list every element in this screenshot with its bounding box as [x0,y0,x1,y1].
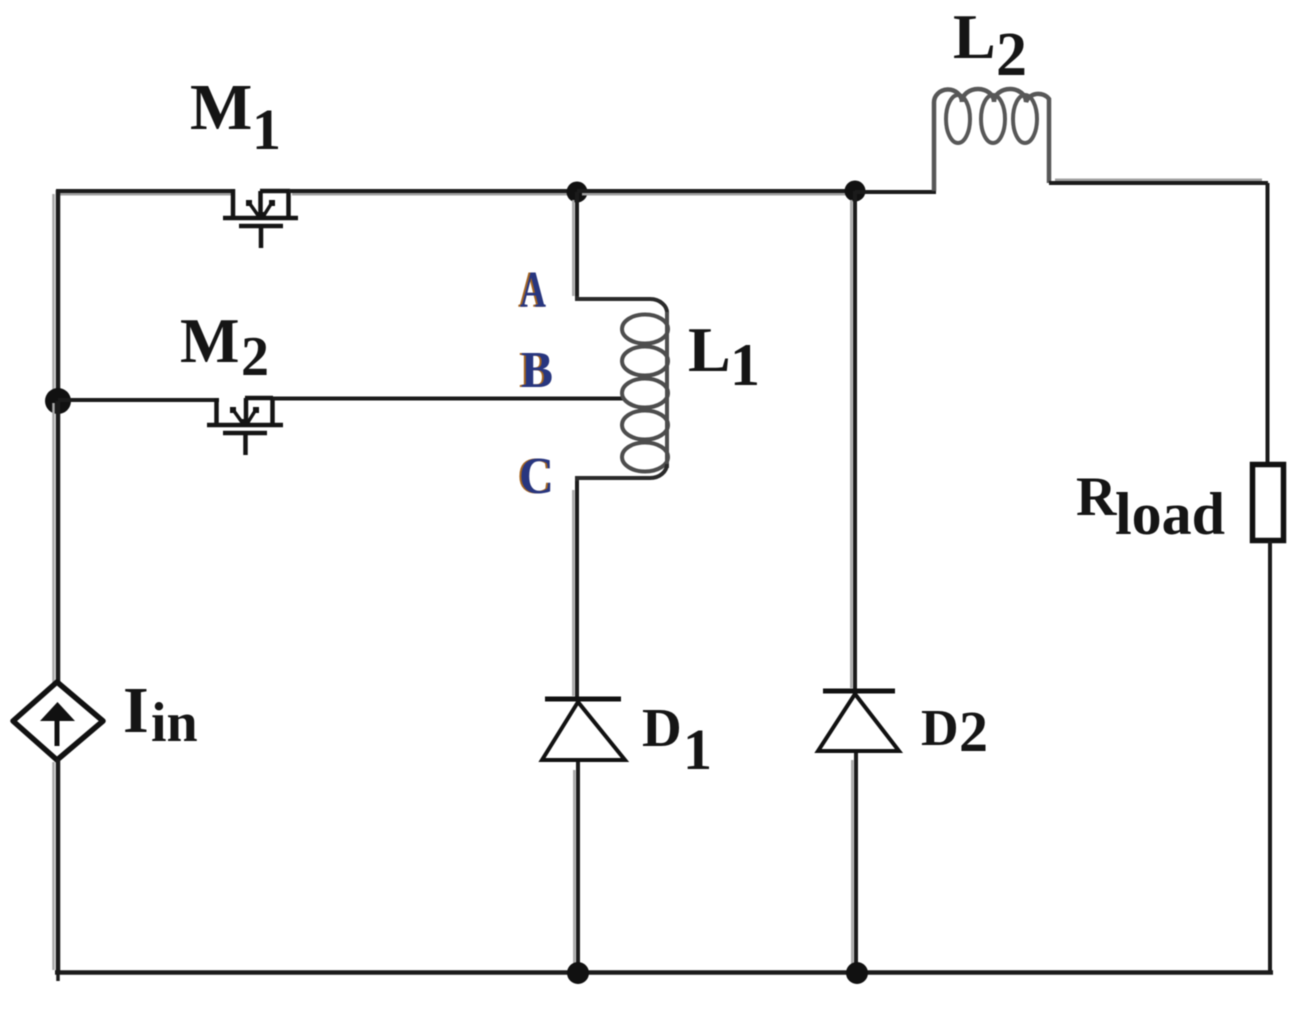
svg-text:2: 2 [959,699,988,764]
svg-text:M: M [180,306,239,376]
label M1 [190,71,281,162]
svg-text:2: 2 [996,21,1027,89]
svg-text:D: D [642,697,682,758]
junction node (M2 branch on left rail) [45,388,71,414]
wire left rail lower (I_in to bottom rail) [54,759,59,981]
svg-text:L: L [688,314,731,385]
wire bottom rail [55,970,1273,975]
wire right rail lower [1268,541,1272,973]
diode D1 [542,699,625,760]
wire left rail upper (top corner to M2 node) [54,190,59,401]
svg-text:A: A [520,262,546,319]
wire left rail middle (node to I_in) [54,401,59,684]
svg-text:R: R [1076,466,1117,528]
wire top-left horizontal (source to M1 drain) [56,191,234,194]
svg-text:1: 1 [730,332,760,398]
label node C [517,448,554,505]
wire D1 branch bottom (D1 to bottom rail) [574,762,578,973]
label L1 [688,314,760,398]
current source I_in [13,682,103,760]
label L2 [953,1,1027,89]
label I_in [123,674,198,754]
label D2 [921,699,988,764]
wire top right horizontal (L2 to right rail) [1049,180,1268,183]
label R_load [1076,466,1225,547]
label node A [518,262,546,319]
wire D1 branch top (top node down to L1) [573,192,577,298]
svg-text:D: D [921,700,959,757]
junction node (top of D2 branch) [845,181,866,202]
inductor L2 [934,89,1049,191]
svg-text:1: 1 [683,717,712,782]
svg-text:C: C [519,448,554,505]
svg-text:B: B [521,342,553,399]
junction node (top of L1/D1 branch) [567,182,588,203]
wire top middle (M1 to node at D1/L1 branch) [289,191,578,194]
svg-text:1: 1 [252,97,281,162]
resistor R_load [1253,465,1284,541]
wire D1 branch middle (L1 bottom to D1) [573,481,577,698]
wire node B (M2 to L1 tap B) [273,397,624,401]
inductor L1 [577,296,668,481]
label D1 [642,697,712,782]
junction node (D1 at bottom rail) [567,962,589,984]
svg-text:I: I [123,674,149,747]
label M2 [180,306,269,388]
svg-text:M: M [190,71,252,144]
transistor M1 [223,189,298,248]
label node B [519,342,553,399]
junction node (D2 at bottom rail) [846,962,868,984]
wire M2 gate-left (node to M2) [58,398,219,402]
svg-text:L: L [953,1,996,72]
svg-text:in: in [151,692,198,754]
wire D2 branch lower (D2 to bottom rail) [852,753,856,973]
wire D2 branch upper (top node to D2) [851,191,855,690]
diode D2 [818,691,899,751]
wire right rail upper [1266,183,1270,465]
transistor M2 [207,398,283,455]
svg-text:2: 2 [241,326,269,388]
wire top right (node to L2) [855,190,936,194]
wire top (node to D2 branch node) [577,191,856,194]
svg-text:load: load [1115,481,1225,547]
